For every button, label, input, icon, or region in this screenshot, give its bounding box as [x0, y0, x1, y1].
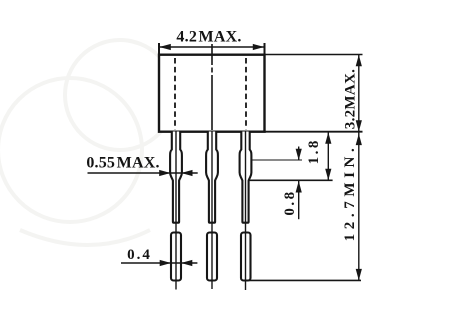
dimension line 1.8 vertical: [327, 132, 329, 180]
reference line from body bottom right: [265, 131, 363, 133]
arrow pointing right at lead1 lower left edge: [160, 260, 171, 266]
center axis line through body (lead 2): [211, 44, 213, 130]
svg-text:0.4: 0.4: [127, 247, 152, 263]
arrow up 3.2 top: [356, 55, 362, 67]
reference line taper end level: [249, 179, 333, 181]
faint scan watermark: [0, 40, 175, 245]
arrow pointing left at lead1 right edge: [181, 170, 192, 176]
lead 2 lower section: [207, 233, 217, 281]
arrow right of 4.2 dim: [253, 44, 264, 50]
dimension line 0.8 upper segment: [298, 147, 300, 161]
transistor body outline: [159, 55, 265, 132]
lead 2 center line: [211, 131, 213, 289]
lead 3 upper section: [240, 132, 252, 223]
reference line bulge level: [252, 159, 303, 161]
dimension line 3.2/12.7 vertical: [358, 55, 360, 281]
svg-text:3.2MAX.: 3.2MAX.: [343, 69, 359, 129]
svg-text:0.8: 0.8: [282, 189, 298, 215]
arrow down 3.2 bottom: [356, 120, 362, 132]
hidden lead line (dashed) left, in body: [174, 58, 176, 130]
lead 3 lower section: [241, 233, 251, 281]
arrow left of 4.2 dim: [159, 44, 171, 50]
extension line left for 4.2 dim: [158, 43, 160, 54]
lead 3 center line: [245, 131, 247, 290]
reference line bottom of leads: [249, 279, 362, 281]
svg-text:12.7MIN.: 12.7MIN.: [342, 144, 358, 242]
lead 1 upper section: [170, 132, 182, 223]
arrow up at taper line: [296, 181, 302, 193]
dimension line 4.2 MAX: [160, 46, 264, 48]
dimension line 0.55 MAX left part: [88, 172, 198, 174]
svg-text:4.2 MAX.: 4.2 MAX.: [176, 29, 241, 46]
lead 1 lower section: [171, 233, 181, 281]
arrow up 12.7 top: [356, 134, 362, 146]
svg-text:0.55 MAX.: 0.55 MAX.: [86, 155, 159, 172]
lead 2 upper section: [206, 132, 218, 223]
lead 1 center line: [175, 131, 177, 290]
arrow down 12.7 bottom: [356, 269, 362, 281]
arrow down 1.8 bottom: [325, 169, 331, 181]
arrow pointing right at lead1 left edge: [159, 170, 170, 176]
arrow down at bulge line: [296, 149, 302, 161]
dimension line 0.4 left part: [121, 262, 197, 264]
svg-text:1.8: 1.8: [306, 138, 322, 164]
arrow pointing left at lead1 lower right edge: [181, 260, 192, 266]
dimension line 0.8 lower segment: [298, 181, 300, 219]
arrow up 1.8 top: [325, 132, 331, 144]
reference line from body top right: [265, 54, 363, 56]
extension line right for 4.2 dim: [264, 43, 266, 54]
hidden lead line (dashed) right, in body: [245, 58, 247, 130]
